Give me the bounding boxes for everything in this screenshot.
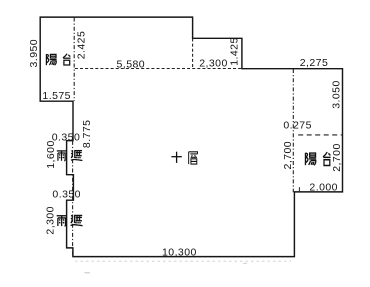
wire balcony left divider dash-dot: [73, 18, 75, 102]
text 雨遮 lower: [57, 216, 67, 226]
wire main unit outline: [40, 17, 342, 257]
text 十層: [171, 152, 181, 163]
wire faint dashed below bottom: [75, 260, 291, 262]
text 陽台 right balcony: [305, 153, 316, 165]
wire dimension dashed horizontal: [75, 68, 242, 70]
svg-text:0.275: 0.275: [283, 120, 312, 132]
svg-text:2,300: 2,300: [45, 206, 57, 235]
svg-text:1.425: 1.425: [228, 37, 240, 66]
speck below bottom line left: [85, 272, 91, 274]
wire left notches divider dash-dot: [72, 141, 74, 257]
svg-text:5,580: 5,580: [117, 58, 146, 70]
text 雨遮 upper: [57, 151, 66, 161]
svg-text:10,300: 10,300: [162, 247, 197, 259]
wire dimension dashed vertical: [192, 39, 194, 69]
svg-text:3.050: 3.050: [331, 80, 343, 109]
svg-text:2,300: 2,300: [199, 58, 228, 70]
wire right balcony divider dash-dot: [292, 69, 294, 192]
svg-text:1,600: 1,600: [45, 140, 57, 169]
wire right balcony top dashed: [298, 134, 342, 136]
wire tick 0.275: [298, 187, 300, 192]
svg-text:1.575: 1.575: [42, 90, 71, 102]
svg-text:2.000: 2.000: [309, 181, 338, 193]
svg-text:2,275: 2,275: [300, 57, 329, 69]
speck below bottom line mid: [243, 262, 247, 264]
svg-text:2,700: 2,700: [331, 143, 343, 172]
svg-text:8.775: 8.775: [81, 120, 93, 149]
svg-text:0.350: 0.350: [52, 189, 81, 201]
svg-text:3.950: 3.950: [28, 39, 40, 68]
svg-text:2,700: 2,700: [282, 141, 294, 170]
svg-text:2.425: 2.425: [75, 31, 87, 60]
text 陽台 left balcony: [46, 54, 56, 65]
